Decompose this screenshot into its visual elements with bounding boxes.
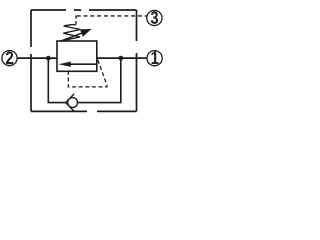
enclosure left edge xyxy=(30,10,32,111)
vent pilot stub at spring top xyxy=(71,24,76,26)
flow arrowhead xyxy=(59,62,71,67)
enclosure right edge xyxy=(136,10,138,111)
port 2 circle xyxy=(2,51,17,66)
flow path arrow shaft xyxy=(69,63,97,65)
check valve seat xyxy=(66,94,75,112)
port 1 label xyxy=(152,51,159,64)
pilot sensing line xyxy=(68,60,107,87)
vent pilot line to port 3 xyxy=(77,15,147,17)
enclosure top edge xyxy=(31,9,137,11)
port 2 label xyxy=(6,51,13,64)
wire check valve to junction B xyxy=(78,58,121,102)
port 3 circle xyxy=(147,10,162,25)
enclosure bottom edge xyxy=(31,110,137,112)
spring adjustment arrow shaft xyxy=(60,33,82,41)
valve body V1 xyxy=(57,41,97,71)
port 3 label xyxy=(151,11,158,24)
spring adjustment arrowhead xyxy=(80,29,92,37)
wire valve to port1 xyxy=(97,57,147,59)
port 1 circle xyxy=(147,51,162,66)
junction dot A xyxy=(46,56,51,61)
vent pilot vertical to port 3 line xyxy=(75,15,77,24)
wire junction A down to check valve xyxy=(48,58,65,102)
wire port2 to valve xyxy=(18,57,57,59)
check valve ball xyxy=(68,98,78,108)
junction dot B xyxy=(118,56,123,61)
adjustable spring xyxy=(63,25,80,41)
